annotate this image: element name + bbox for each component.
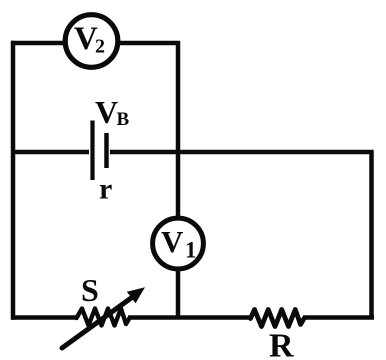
wire left vertical rail [11, 41, 16, 320]
voltmeter V1 [153, 218, 204, 269]
wire middle horizontal left (left rail to battery) [11, 150, 89, 155]
label R [269, 328, 294, 360]
label S [81, 272, 99, 308]
svg-text:R: R [269, 328, 294, 360]
svg-text:V: V [95, 94, 118, 130]
svg-text:1: 1 [185, 238, 197, 263]
wire middle vertical upper (top wire through node to voltmeter V1) [176, 41, 181, 217]
resistor R zigzag [251, 310, 305, 327]
svg-text:2: 2 [95, 35, 105, 57]
svg-text:S: S [81, 272, 99, 308]
wire bottom-middle horizontal (rheostat S to resistor R) [128, 315, 252, 320]
battery VB long plate [90, 121, 94, 181]
battery VB short plate [104, 133, 109, 168]
wire top-left horizontal (left rail to voltmeter V2) [11, 41, 66, 46]
wire bottom-right horizontal (resistor R to right rail) [303, 315, 374, 320]
wire middle vertical lower (voltmeter V1 to bottom wire) [176, 270, 181, 319]
wire bottom-left horizontal (left rail to rheostat S) [11, 315, 78, 320]
rheostat S arrow [62, 287, 145, 348]
svg-text:r: r [99, 173, 112, 206]
label r [99, 173, 112, 206]
svg-text:V: V [161, 224, 184, 259]
wire top-right horizontal (voltmeter V2 to middle vertical) [117, 41, 180, 46]
rheostat S zigzag [77, 309, 130, 326]
wire right vertical rail [369, 150, 374, 320]
svg-text:B: B [117, 109, 130, 130]
wire middle horizontal right (battery across node to right rail) [110, 150, 374, 155]
label VB [95, 94, 130, 130]
voltmeter V2 [65, 15, 118, 68]
